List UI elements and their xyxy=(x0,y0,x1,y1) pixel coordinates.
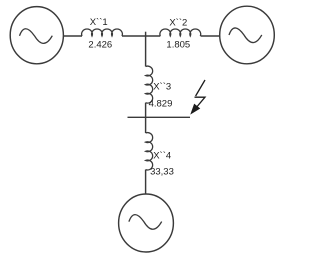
reactance X''2 (inductor) xyxy=(160,29,201,36)
svg-text:X``4: X``4 xyxy=(153,151,171,162)
reactance X''1 (inductor) xyxy=(82,29,123,36)
generator G1 (top-left AC source) xyxy=(10,7,63,64)
svg-text:X``1: X``1 xyxy=(90,17,108,28)
generator G3 (bottom AC source) xyxy=(119,194,174,252)
reactance X''4 (inductor, vertical) xyxy=(146,133,153,170)
svg-text:1.805: 1.805 xyxy=(166,39,190,50)
fault arrow (lightning bolt) xyxy=(191,80,205,114)
wire G1 to X''1 xyxy=(63,35,82,37)
wire X''3 to bus / X''4 xyxy=(145,103,147,133)
svg-text:2.426: 2.426 xyxy=(88,40,112,51)
svg-text:X``2: X``2 xyxy=(169,17,187,28)
fault bus xyxy=(128,116,191,118)
svg-text:33,33: 33,33 xyxy=(150,167,174,178)
svg-text:X``3: X``3 xyxy=(153,81,171,92)
node junction (wire to X''3 branch) xyxy=(145,32,147,67)
wire X''1 to X''2 xyxy=(122,35,160,37)
reactance X''3 (inductor, vertical) xyxy=(146,66,153,103)
generator G2 (top-right AC source) xyxy=(220,6,275,64)
wire X''2 to G2 xyxy=(201,35,220,37)
wire X''4 to G3 xyxy=(145,170,147,195)
svg-text:4.829: 4.829 xyxy=(149,99,173,110)
